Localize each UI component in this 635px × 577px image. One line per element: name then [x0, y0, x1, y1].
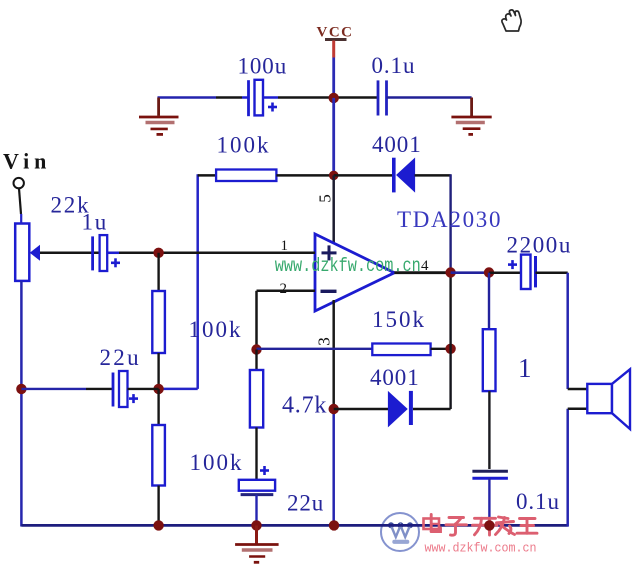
- wire ground bus: [21, 524, 567, 527]
- wire output pin4: [394, 271, 450, 274]
- junction dot bus at C7: [484, 520, 494, 530]
- junction dot pin1 node: [153, 248, 163, 258]
- svg-text:100k: 100k: [190, 450, 244, 475]
- wire C1 to VCC junction: [278, 96, 334, 99]
- ground top-left: [139, 98, 179, 135]
- ground top-right: [451, 98, 491, 135]
- junction dot C6/R6 node: [484, 267, 494, 277]
- op-amp U1 TDA2030: [315, 234, 394, 311]
- svg-text:100u: 100u: [238, 54, 288, 79]
- node VCC terminal: [317, 25, 354, 58]
- capacitor C3 1u: [82, 210, 121, 272]
- wire VCC vertical to top rail junction: [332, 58, 335, 98]
- junction dot output node: [445, 267, 455, 277]
- junction dot bias node: [153, 384, 163, 394]
- resistor R1 100k (top): [198, 133, 334, 182]
- junction dot bus at pin3: [329, 520, 339, 530]
- wire Vin to pot top: [19, 188, 21, 214]
- wire speaker bottom vertical: [566, 409, 569, 527]
- svg-text:22u: 22u: [100, 345, 141, 370]
- wire pin3 vertical from op-amp to bus: [332, 300, 335, 527]
- wire VCC junction to C2: [334, 96, 377, 99]
- capacitor C1 100u: [238, 54, 288, 117]
- svg-text:TDA2030: TDA2030: [397, 207, 502, 232]
- watermark logo W circle: [381, 513, 419, 551]
- svg-text:2200u: 2200u: [507, 233, 573, 258]
- watermark red text dianzi kaifa wang: [424, 515, 538, 536]
- wire top-left ground to C1: [158, 96, 217, 99]
- svg-text:www.dzkfw.com.cn: www.dzkfw.com.cn: [275, 255, 421, 277]
- svg-text:22u: 22u: [287, 491, 324, 516]
- svg-text:1u: 1u: [82, 210, 109, 235]
- wire pot bottom vertical to bus: [20, 281, 23, 527]
- junction dot bus at R3: [153, 520, 163, 530]
- wire output node to C6 node: [451, 271, 489, 274]
- wire VCC junction down to R1 rail junction: [332, 98, 335, 175]
- svg-text:150k: 150k: [372, 307, 426, 332]
- capacitor C4 22u (left): [21, 345, 158, 407]
- resistor R4 150k: [372, 307, 431, 355]
- junction dot pin2 node: [251, 344, 261, 354]
- wire R4 to output vertical: [431, 348, 451, 350]
- svg-text:3: 3: [315, 337, 334, 346]
- capacitor C7 0.1u (bottom): [472, 471, 559, 526]
- capacitor C5 22u (bottom): [239, 466, 324, 527]
- wire pin2 input: [257, 291, 316, 350]
- svg-text:100k: 100k: [217, 133, 271, 158]
- resistor R2 100k (upper bias): [152, 253, 242, 389]
- wire D1 to output corner: [415, 174, 451, 177]
- wire junction to D1: [334, 174, 392, 177]
- resistor R3 100k (lower bias): [152, 389, 243, 527]
- wire speaker top vertical: [566, 273, 569, 389]
- svg-text:0.1u: 0.1u: [516, 489, 560, 514]
- svg-text:4001: 4001: [370, 365, 420, 390]
- capacitor C6 2200u: [489, 233, 572, 290]
- cursor hand icon: [502, 10, 521, 31]
- svg-text:Vin: Vin: [3, 149, 51, 174]
- svg-text:1: 1: [518, 353, 532, 383]
- wire C2 to top-right ground: [387, 96, 472, 99]
- diode D1 4001: [372, 132, 422, 192]
- svg-text:www.dzkfw.com.cn: www.dzkfw.com.cn: [425, 541, 537, 556]
- wire pin1 input: [39, 252, 315, 255]
- svg-text:5: 5: [316, 194, 335, 203]
- ground bottom: [235, 525, 279, 562]
- junction dot bus at C5/ground: [251, 520, 261, 530]
- wire output corner vertical down to output node: [449, 174, 451, 272]
- svg-text:2: 2: [280, 281, 288, 297]
- resistor R5 4.7k: [250, 350, 327, 481]
- speaker LS1: [568, 369, 630, 429]
- wire feedback line pin2 node to R4: [257, 348, 373, 350]
- diode D2 4001: [334, 365, 451, 426]
- wire R1 left lead vertical (blue L down to bias node): [159, 174, 198, 389]
- wire pot top blue stub: [20, 214, 22, 224]
- junction dot pin3/D2 anode: [329, 404, 339, 414]
- junction dot R1/diode rail: [329, 171, 339, 181]
- junction dot feedback/output: [445, 344, 455, 354]
- junction dot 22u left node: [16, 384, 26, 394]
- svg-text:100k: 100k: [189, 317, 243, 342]
- svg-text:0.1u: 0.1u: [372, 53, 416, 78]
- svg-text:4001: 4001: [372, 132, 422, 157]
- junction dot top rail at VCC: [329, 93, 339, 103]
- wire output vertical down to D2: [449, 272, 451, 409]
- resistor R6 1: [483, 273, 532, 469]
- node Vin terminal: [3, 149, 51, 189]
- svg-text:4.7k: 4.7k: [282, 393, 327, 419]
- potentiometer RP 22k: [15, 193, 90, 281]
- capacitor C2 0.1u: [372, 53, 416, 116]
- wire pin5 from rail to op-amp: [332, 175, 335, 247]
